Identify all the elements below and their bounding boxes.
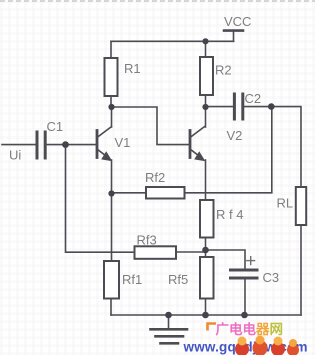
capacitor C1 [36,132,39,158]
resistor Rf5 [200,257,214,299]
svg-text:Rf5: Rf5 [168,272,188,287]
transistor V1 [96,131,99,158]
svg-text:C2: C2 [245,91,262,106]
resistor Rf3 [135,246,177,258]
node ground rail / ground symbol [165,312,172,319]
svg-text:器: 器 [255,322,270,337]
resistor R1 [110,41,112,58]
svg-text:VCC: VCC [224,14,251,29]
node C3/rail [241,312,248,319]
wire C2 to output node [244,106,271,108]
VCC terminal [233,31,235,41]
wire input Ui [2,144,36,146]
svg-text:V2: V2 [227,128,243,143]
node R2/V2 collector [202,104,208,110]
svg-text:网: 网 [270,322,284,337]
svg-text:R f 4: R f 4 [216,207,243,222]
transistor V2 [189,131,192,158]
resistor Rf4 [200,200,214,238]
resistor Rf1 [104,261,119,299]
capacitor C2 [233,94,236,119]
wire V1 emitter node to Rf2 [112,192,147,194]
svg-text:广电电: 广电电 [216,321,257,337]
node R1/V1 collector [108,104,114,110]
watermark bracket [208,324,217,331]
svg-text:Rf3: Rf3 [137,233,157,248]
watermark mascot figures [235,336,299,355]
wire output node to RL [271,107,301,187]
svg-text:C1: C1 [47,119,64,134]
svg-text:Ui: Ui [9,148,21,163]
svg-text:C3: C3 [263,270,280,285]
wire V2 emitter down to Rf4 [205,160,207,200]
svg-text:R1: R1 [124,61,141,76]
wire R1 bottom to V2 base [112,107,189,145]
ground [168,315,170,329]
svg-text:Rf1: Rf1 [122,272,142,287]
wire R2 to C2 [206,106,234,108]
svg-text:RL: RL [277,196,294,211]
svg-text:R2: R2 [215,63,232,78]
wire VCC rail top [111,40,234,42]
wire node A down to Rf3 [66,146,135,252]
wire feedback Rf2 to output node [185,107,272,193]
C3 plus sign [247,257,255,265]
wire C1 to V1 base [47,144,97,146]
wire node B to C3 [206,250,246,269]
svg-text:V1: V1 [115,135,131,150]
resistor Rf2 [146,187,185,199]
wire V1 emitter to Rf1 [111,194,113,262]
node Rf5/rail [202,312,209,319]
wire Rf3 to node B [176,251,206,253]
node output C2/RL [268,103,275,110]
node V1 emitter/Rf2 [108,190,114,196]
node VCC junction [202,38,208,44]
resistor RL [296,187,306,225]
svg-text:Rf2: Rf2 [145,170,165,185]
capacitor C3 [231,269,258,272]
node A C1/V1 base [62,141,69,148]
resistor R2 [205,41,207,57]
node B Rf4/Rf5/Rf3/C3 [202,247,209,254]
wire ground rail [111,314,301,316]
